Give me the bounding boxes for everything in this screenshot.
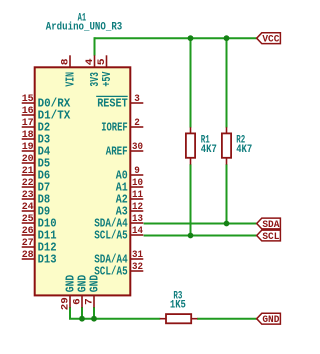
pin stub 26 (D11) [22,234,35,236]
pin stub 23 (D8) [22,198,35,200]
wire GND pin29 drop [69,307,71,319]
pin stub 20 (D5) [22,162,35,164]
resistor R3 [160,314,198,323]
svg-text:25: 25 [22,213,34,225]
wire SCL net [144,235,257,237]
wire GND run to R3 [69,318,160,320]
svg-text:GND: GND [262,314,279,326]
svg-text:8: 8 [59,59,71,66]
wire VCC to R1 top [190,38,192,127]
svg-text:15: 15 [22,93,34,105]
wire VCC to R2 top [226,38,228,127]
pin stub 8 (VIN) [69,55,71,67]
svg-text:2: 2 [134,117,140,129]
pin stub 10 (A1) [130,186,143,188]
pin stub 5 (+5V) [106,55,108,67]
svg-text:+5V: +5V [100,71,114,87]
svg-text:3: 3 [134,93,140,105]
svg-text:SDA: SDA [262,219,280,231]
pin stub 7 (GND) [93,295,95,307]
svg-text:11: 11 [132,189,143,201]
svg-text:24: 24 [22,201,34,213]
svg-text:29: 29 [59,297,71,310]
wire VCC rail [95,37,257,39]
svg-text:14: 14 [132,225,143,237]
pin stub 16 (D1/TX) [22,114,35,116]
svg-text:20: 20 [22,153,34,165]
pin stub 15 (D0/RX) [22,102,35,104]
pin stub 19 (D4) [22,150,35,152]
svg-text:VIN: VIN [64,72,78,87]
junction SCL/R1 [188,233,194,239]
svg-text:27: 27 [22,237,34,249]
net flag SDA [257,218,281,231]
RESET overline [96,95,128,97]
svg-text:23: 23 [22,189,34,201]
svg-text:1K5: 1K5 [170,300,186,312]
pin stub 6 (GND) [81,295,83,307]
svg-text:RESET: RESET [97,97,128,111]
svg-text:SCL: SCL [262,231,279,243]
pin stub 18 (D3) [22,138,35,140]
pin stub 31 (SDA/A4) [130,258,143,260]
pin stub 11 (A2) [130,198,143,200]
svg-text:19: 19 [22,141,34,153]
pin stub 28 (D13) [22,258,35,260]
svg-text:4K7: 4K7 [236,144,252,156]
junction GND pin6 [79,316,85,322]
svg-text:4K7: 4K7 [201,144,217,156]
svg-text:18: 18 [22,129,34,141]
svg-text:SCL/A5: SCL/A5 [94,229,128,243]
junction SDA/R2 [224,221,230,227]
pin stub 12 (A3) [130,210,143,212]
svg-text:13: 13 [132,213,143,225]
net flag SCL [257,230,281,243]
svg-text:12: 12 [132,201,143,213]
svg-text:21: 21 [22,165,34,177]
wire R3 to GND flag [197,318,257,320]
junction VCC/R1 [188,35,194,41]
pin stub 32 (SCL/A5) [130,270,143,272]
pin stub 21 (D6) [22,174,35,176]
svg-text:26: 26 [22,225,34,237]
pin stub 25 (D10) [22,222,35,224]
wire GND pin7 drop [93,307,95,319]
resistor R2 [222,127,231,164]
wire R2 bottom to SDA [226,164,228,223]
pin stub 13 (SDA/A4) [130,222,143,224]
pin stub 30 (AREF) [130,150,143,152]
pin stub 17 (D2) [22,126,35,128]
svg-text:IOREF: IOREF [101,121,128,135]
svg-text:6: 6 [71,298,83,305]
resistor R1 [186,127,195,164]
svg-text:5: 5 [96,59,108,66]
svg-text:31: 31 [132,249,143,261]
pin stub 4 (3V3) [94,55,96,67]
svg-text:Arduino_UNO_R3: Arduino_UNO_R3 [46,22,123,34]
svg-text:22: 22 [22,177,34,189]
svg-text:17: 17 [22,117,34,129]
pin stub 9 (A0) [130,174,143,176]
svg-text:30: 30 [132,141,143,153]
net flag GND [257,313,281,326]
pin stub 14 (SCL/A5) [130,234,143,236]
svg-text:10: 10 [132,177,143,189]
svg-text:VCC: VCC [262,34,280,46]
svg-text:32: 32 [132,261,143,273]
svg-text:AREF: AREF [106,145,128,159]
svg-text:9: 9 [134,165,140,177]
IC A1: Arduino UNO R3 symbol body [35,67,131,295]
junction VCC/R2 [224,35,230,41]
pin stub 27 (D12) [22,246,35,248]
wire 3V3 to VCC rail [94,37,96,55]
pin stub 29 (GND) [69,295,71,307]
pin stub 24 (D9) [22,210,35,212]
svg-text:7: 7 [83,298,95,305]
junction GND pin7 [91,316,97,322]
svg-text:16: 16 [22,105,34,117]
svg-text:D13: D13 [38,253,57,267]
svg-text:GND: GND [88,275,102,292]
wire R1 bottom to SCL [190,164,192,235]
pin stub 3 (RESET) [130,102,143,104]
wire GND pin6 drop [81,307,83,319]
svg-text:28: 28 [22,249,34,261]
net flag VCC [257,33,281,46]
wire SDA net [144,223,257,225]
svg-text:4: 4 [84,59,96,66]
pin stub 2 (IOREF) [130,126,143,128]
pin stub 22 (D7) [22,186,35,188]
